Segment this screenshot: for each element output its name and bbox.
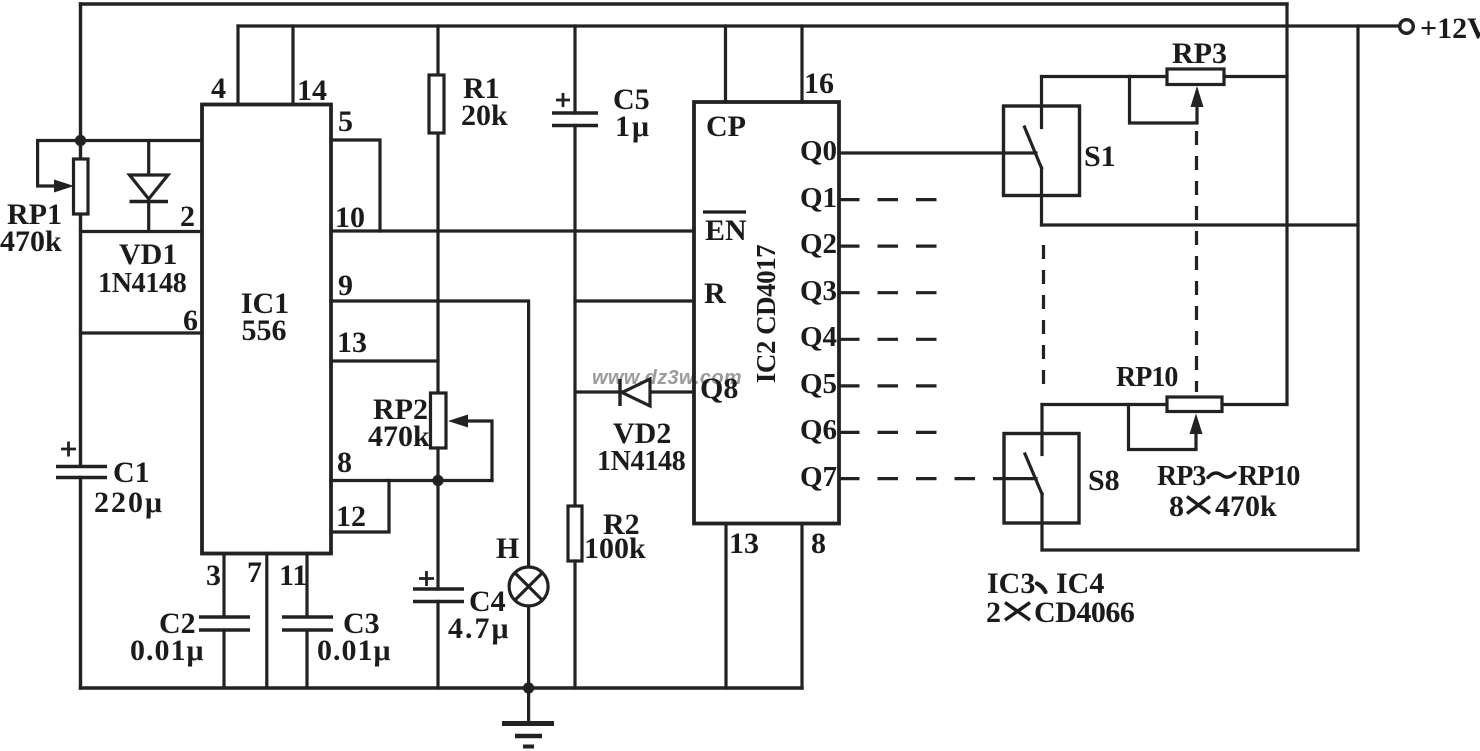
wire R2 top node to IC2 R [575, 299, 694, 302]
svg-text:12: 12 [336, 500, 366, 533]
svg-text:Q2: Q2 [800, 228, 837, 260]
wire C5/R2 branch vertical upper [573, 26, 576, 113]
svg-text:VD1: VD1 [119, 238, 177, 271]
wire RP10 wiper loop [1129, 405, 1197, 450]
label IC3 IC4 [987, 567, 1104, 600]
diode VD2 [620, 379, 650, 406]
pin EN label of IC2 with overline [703, 212, 747, 247]
terminal +12V circle [1400, 20, 1414, 34]
svg-text:H: H [496, 532, 519, 565]
svg-text:8: 8 [1169, 490, 1184, 523]
wire IC1 pin 12 jog up to pin 8 net [331, 481, 389, 533]
IC2 CD4017 counter box [694, 102, 839, 524]
wire R2 bottom to ground rail [573, 561, 576, 688]
wire IC2 Q1 dashed stub [839, 198, 939, 201]
wire IC2 VDD left to +12V rail [724, 26, 727, 102]
potentiometer RP1 body [74, 159, 89, 214]
svg-text:S1: S1 [1084, 140, 1116, 173]
svg-text:Q1: Q1 [800, 182, 837, 214]
wire IC2 Q6 dashed stub [839, 431, 939, 434]
svg-text:Q4: Q4 [800, 321, 837, 353]
label RP3~RP10 [1157, 461, 1299, 492]
capacitor C1 [56, 442, 107, 478]
capacitor C4 [413, 571, 464, 602]
wire right rail to +12V [1356, 26, 1359, 550]
arrow RP3 wiper [1191, 86, 1204, 123]
svg-text:470k: 470k [1215, 490, 1277, 523]
potentiometer RP2 wiper arrow [448, 415, 492, 481]
svg-text:10: 10 [335, 201, 365, 234]
svg-text:4: 4 [211, 72, 226, 105]
wire IC1 pin 5 jog to pin 10 net [331, 140, 380, 231]
arrow RP10 wiper [1190, 414, 1203, 450]
wire node A to IC1 left edge [81, 139, 203, 142]
potentiometer RP1 wiper arrow [38, 141, 78, 193]
svg-text:556: 556 [242, 314, 287, 347]
lamp H [509, 567, 548, 606]
svg-text:0.01μ: 0.01μ [130, 634, 205, 667]
svg-text:EN: EN [705, 214, 747, 247]
svg-text:Q5: Q5 [800, 368, 837, 400]
analog switch S8 box [1004, 434, 1079, 524]
op-amp IC1 556 dual timer box [202, 105, 331, 554]
resistor R2 [568, 506, 582, 561]
wire IC2 Q2 dashed stub [839, 245, 939, 248]
svg-text:9: 9 [338, 269, 353, 302]
wire S1 bottom to right rail [1042, 223, 1359, 226]
potentiometer RP3 body [1167, 69, 1224, 85]
wire bottom ground rail [81, 686, 803, 689]
wire +12V second rail [238, 24, 1399, 27]
wire lamp H to ground rail [527, 606, 530, 688]
value 8x470k [1169, 490, 1277, 523]
wire RP2 bottom to C4 [436, 448, 439, 589]
svg-text:8: 8 [811, 527, 826, 560]
svg-text:+12V: +12V [1420, 12, 1480, 45]
ground symbol [502, 688, 554, 747]
wire IC1 pin 8 to RP2 bottom and wiper [331, 479, 492, 482]
svg-text:RP3: RP3 [1157, 461, 1206, 492]
svg-text:13: 13 [337, 326, 367, 359]
svg-text:14: 14 [297, 74, 327, 107]
wire S1 top to RP3 left [1042, 75, 1168, 78]
svg-text:2: 2 [986, 596, 1001, 629]
capacitor C2 [199, 617, 250, 630]
switch S1 contacts [1025, 77, 1042, 226]
wire IC2 pin8 to ground rail [800, 524, 803, 689]
wire IC1 pin4 to +12V rail [236, 26, 239, 105]
svg-text:4.7μ: 4.7μ [448, 612, 511, 645]
wire R1 branch vertical [436, 26, 439, 393]
svg-text:100k: 100k [584, 532, 646, 565]
value 2xCD4066 [986, 596, 1135, 629]
dashed gang line RP3 to RP10 [1195, 131, 1198, 392]
wire S8 bottom to right rail [1042, 548, 1358, 551]
potentiometer RP2 body [431, 393, 447, 448]
svg-text:2: 2 [180, 200, 195, 233]
svg-text:S8: S8 [1088, 464, 1120, 497]
wire RP3 wiper loop [1130, 77, 1198, 124]
wire right vertical from top rail to RP10 [1285, 4, 1288, 405]
svg-text:CD4066: CD4066 [1034, 596, 1135, 629]
svg-text:R: R [704, 277, 726, 310]
svg-text:220μ: 220μ [94, 486, 164, 519]
switch S8 contacts [1025, 405, 1042, 551]
svg-text:CP: CP [706, 110, 746, 143]
wire IC1 pin 13 to R1/RP2 [331, 359, 438, 362]
svg-text:Q3: Q3 [800, 275, 837, 307]
svg-text:470k: 470k [0, 225, 62, 258]
svg-text:6: 6 [183, 304, 198, 337]
wire IC1 pin 6 to left rail [81, 331, 203, 334]
wire IC1 pin14 to +12V rail [291, 26, 294, 105]
wire Q7 inside S8 box [1004, 477, 1036, 480]
wire IC1 pin 9 to lamp H [331, 301, 529, 567]
wire RP10 right to top rail vertical [1222, 403, 1287, 406]
analog switch S1 box [1004, 106, 1080, 196]
wire IC2 pin13 to ground rail [724, 524, 727, 689]
svg-text:3: 3 [206, 559, 221, 592]
wire C5 bottom down to R2 [573, 126, 576, 507]
wire IC1 pin 7 to ground rail [265, 554, 268, 689]
node junction dot RP2 bottom [432, 475, 443, 486]
svg-text:8: 8 [337, 446, 352, 479]
svg-text:Q6: Q6 [800, 414, 837, 446]
wire IC2 Q7 dashed to switch S8 [839, 477, 1004, 480]
svg-text:C1: C1 [113, 456, 150, 489]
capacitor C5 [552, 93, 598, 126]
wire left rail [79, 4, 82, 688]
svg-text:5: 5 [338, 105, 353, 138]
wire C3 to ground rail [305, 630, 308, 688]
wire IC2 pin16 to +12V rail [800, 26, 803, 102]
potentiometer RP10 body [1167, 397, 1222, 412]
wire IC2 Q5 dashed stub [839, 384, 939, 387]
wire IC1 pin 10 to IC2 EN [331, 229, 694, 232]
diode VD1 [130, 141, 169, 232]
svg-text:16: 16 [804, 67, 834, 100]
svg-text:1N4148: 1N4148 [597, 446, 686, 477]
dashed chain line S1 to S8 [1042, 245, 1045, 384]
wire IC1 pin 3 upper segment with C2 [222, 554, 225, 618]
svg-text:RP10: RP10 [1238, 461, 1299, 492]
svg-text:20k: 20k [461, 99, 508, 132]
wire top rail [81, 2, 1288, 5]
svg-text:13: 13 [729, 527, 759, 560]
svg-text:IC2 CD4017: IC2 CD4017 [751, 245, 781, 383]
svg-text:Q7: Q7 [800, 461, 837, 493]
svg-text:0.01μ: 0.01μ [317, 634, 392, 667]
svg-text:RP3: RP3 [1172, 37, 1227, 70]
wire C2 to ground rail [222, 630, 225, 688]
wire IC2 Q8 through VD2 [575, 390, 694, 393]
resistor R1 [429, 75, 444, 133]
wire RP3 right to top rail vertical [1224, 75, 1287, 78]
svg-text:470k: 470k [368, 420, 430, 453]
svg-text:1μ: 1μ [615, 110, 651, 143]
wire IC2 Q3 dashed stub [839, 291, 939, 294]
wire IC1 pin 2 to left rail [81, 230, 203, 233]
svg-text:7: 7 [247, 556, 262, 589]
svg-text:11: 11 [279, 559, 307, 592]
wire S8 top to RP10 left [1042, 403, 1167, 406]
svg-text:Q8: Q8 [700, 372, 738, 405]
svg-text:1N4148: 1N4148 [98, 268, 187, 299]
svg-text:RP10: RP10 [1116, 362, 1177, 393]
capacitor C3 [282, 617, 333, 630]
wire C4 to ground rail [436, 602, 439, 689]
node A junction dot left rail [75, 135, 86, 146]
wire IC2 Q4 dashed stub [839, 338, 939, 341]
wire IC1 pin 11 upper segment with C3 [305, 554, 308, 618]
wire IC2 Q0 to switch S1 [839, 151, 1036, 154]
svg-text:Q0: Q0 [800, 135, 837, 167]
node junction dot at ground rail [523, 682, 534, 693]
